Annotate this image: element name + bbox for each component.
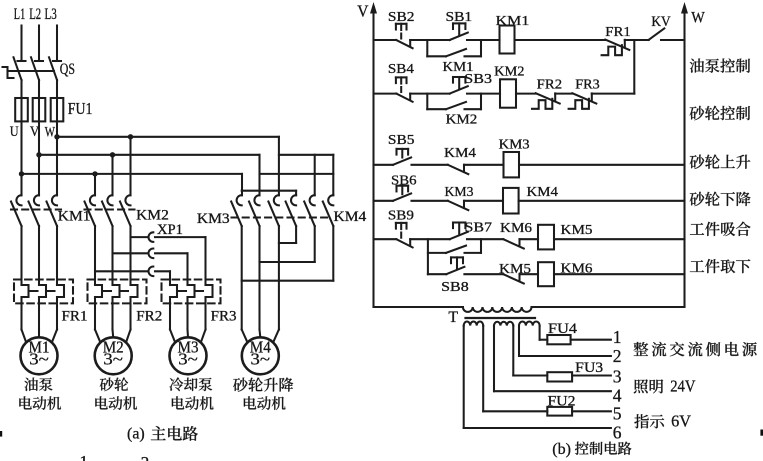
svg-text:SB4: SB4	[388, 61, 414, 76]
pushbutton SB2 (NC)	[396, 24, 413, 48]
label lighting 24V	[634, 377, 696, 396]
svg-text:FU4: FU4	[548, 321, 578, 337]
wire rung3 c	[519, 164, 685, 166]
relay contact KV	[649, 28, 665, 39]
svg-text:FU3: FU3	[575, 360, 603, 376]
aux contact KM5 (self-hold, parallel SB7)	[428, 239, 481, 253]
transformer T core	[466, 317, 536, 319]
label SB4	[388, 61, 414, 76]
label FR3 contact	[575, 78, 599, 93]
svg-text:KM4: KM4	[444, 146, 476, 161]
label terminal 4	[613, 386, 622, 406]
contactor KM1 main contacts	[11, 195, 61, 226]
fuse FU1 (3 fuses)	[15, 98, 63, 121]
label KM1 main	[58, 209, 91, 225]
label KM2 coil	[494, 65, 524, 80]
aux contact KM2 (self-hold, parallel SB3)	[427, 94, 481, 110]
label KM4 main	[334, 209, 368, 225]
label QS	[60, 61, 75, 78]
svg-text:6V: 6V	[671, 412, 692, 431]
caption (b)	[552, 441, 631, 458]
label FR2 contact	[537, 78, 562, 93]
node L2 supply line	[38, 26, 40, 61]
svg-text:XP1: XP1	[157, 222, 183, 238]
wire rung6 a	[464, 273, 503, 275]
wire secondary out 3	[513, 326, 611, 376]
wire secondary out 5	[483, 326, 611, 412]
label M3 name	[169, 377, 213, 409]
label FR1 contact	[605, 25, 631, 40]
wire secondary out 1	[540, 326, 611, 340]
switch QS (3-pole knife switch)	[3, 57, 62, 98]
label KM3 main	[197, 211, 230, 227]
coil KM6	[538, 262, 554, 286]
transformer T primary	[463, 307, 532, 312]
wire rung3 b	[464, 164, 504, 166]
label func wheel up	[690, 155, 751, 169]
svg-text:W: W	[691, 10, 705, 27]
wire rung1 c	[515, 39, 606, 41]
wire rung3 a	[412, 164, 448, 166]
svg-text:SB7: SB7	[465, 220, 493, 235]
svg-text:FR1: FR1	[605, 25, 631, 40]
svg-text:24V: 24V	[670, 377, 696, 396]
label SB6	[391, 173, 417, 188]
label SB9	[388, 208, 414, 223]
svg-text:1: 1	[80, 452, 89, 461]
label KM2 aux	[446, 113, 478, 128]
wire rung6 b	[520, 273, 539, 275]
label func wheel down	[690, 192, 751, 206]
linkage dashes KM3 KM4	[232, 216, 331, 218]
svg-text:SB9: SB9	[388, 208, 414, 223]
label func wheel control	[690, 106, 750, 120]
label KM6 nc5	[500, 221, 532, 236]
pushbutton SB4 (NC)	[396, 77, 413, 101]
label indicator 6V	[634, 412, 691, 431]
wire rung6 c	[554, 273, 685, 275]
svg-text:KM3: KM3	[445, 185, 474, 200]
svg-text:FR2: FR2	[537, 78, 562, 93]
label M1	[29, 337, 50, 368]
wire rung4 c	[519, 200, 685, 202]
node W rail (right)	[681, 2, 688, 307]
label M2	[103, 337, 124, 368]
label func work release	[690, 259, 750, 273]
svg-text:QS: QS	[60, 61, 75, 78]
svg-text:3~: 3~	[251, 349, 271, 368]
svg-text:6: 6	[613, 423, 622, 443]
transformer T secondary w2	[494, 322, 513, 326]
label M3	[178, 337, 199, 368]
crop artifact right	[760, 430, 763, 436]
label KV	[651, 14, 671, 30]
label SB8	[441, 279, 469, 294]
label M4	[250, 337, 271, 368]
wire rung4 a	[412, 200, 448, 202]
wire rung1 d	[625, 39, 649, 41]
wire rung2 a	[410, 93, 450, 95]
pushbutton SB9 (NC)	[396, 223, 413, 248]
thermal relay FR2 heaters	[88, 280, 147, 330]
node L1 supply line	[20, 26, 22, 61]
wire rung2 c	[516, 93, 536, 95]
svg-text:(a): (a)	[127, 426, 145, 443]
svg-text:3: 3	[613, 367, 622, 387]
svg-text:FR3: FR3	[575, 78, 599, 93]
svg-text:SB8: SB8	[441, 279, 469, 294]
svg-text:2: 2	[613, 346, 622, 366]
wire KM2 outputs	[95, 226, 131, 285]
label terminal 3	[613, 367, 622, 387]
wire rung2 e	[592, 93, 635, 95]
coil KM4	[503, 188, 519, 214]
fuse FU2	[547, 407, 572, 416]
transformer T secondary w1	[464, 322, 484, 326]
wire rung4 left	[374, 200, 394, 202]
interlock contact KM4 (NC)	[448, 165, 469, 174]
wire rung6 riser	[427, 239, 429, 274]
svg-text:L3: L3	[45, 6, 57, 23]
wire bottom rail	[374, 306, 685, 308]
svg-text:KM6: KM6	[500, 221, 532, 236]
label FU1	[68, 99, 93, 118]
label SB1	[446, 9, 473, 24]
pushbutton SB7 (NO)	[450, 223, 468, 240]
label KM4 coil	[527, 185, 559, 200]
svg-text:KM3: KM3	[197, 211, 230, 227]
svg-text:SB6: SB6	[391, 173, 417, 188]
wire rung1 b	[467, 39, 500, 41]
label FR3	[211, 309, 237, 325]
label M1 name	[19, 378, 61, 410]
label rectifier supply	[634, 342, 757, 356]
label XP1	[157, 222, 183, 238]
motor M4	[242, 330, 279, 375]
wire secondary out 4	[494, 326, 611, 392]
svg-text:SB3: SB3	[464, 71, 492, 86]
label KM4 nc3	[444, 146, 476, 161]
svg-text:2: 2	[141, 453, 150, 461]
coil KM1	[500, 26, 515, 54]
label FR1	[62, 309, 88, 325]
svg-text:KM2: KM2	[494, 65, 524, 80]
wire rung5 a	[410, 238, 450, 240]
connector XP1	[95, 232, 206, 285]
svg-text:3~: 3~	[103, 349, 123, 368]
pushbutton SB8 (NO)	[446, 257, 464, 274]
coil KM5	[538, 225, 554, 250]
thermal contact FR3 (NC)	[569, 93, 597, 109]
svg-text:KM1: KM1	[58, 209, 91, 225]
svg-text:SB1: SB1	[446, 9, 473, 24]
wire rung2 left	[374, 93, 397, 95]
svg-text:V: V	[357, 2, 369, 21]
wire rung2 d	[555, 93, 572, 95]
svg-text:KM1: KM1	[496, 14, 530, 29]
label terminal 5	[613, 404, 622, 424]
svg-text:L1: L1	[14, 6, 25, 23]
label func oil pump control	[690, 58, 750, 72]
label KM3 coil	[499, 138, 530, 153]
thermal contact FR2 (NC)	[532, 93, 560, 109]
wire feeders to KM3/KM4	[242, 137, 334, 196]
label KM2 main	[136, 208, 169, 224]
label terminal 1	[613, 327, 622, 347]
svg-text:W: W	[45, 125, 56, 141]
coil KM3	[504, 152, 520, 177]
svg-text:KV: KV	[651, 14, 671, 30]
svg-text:FU2: FU2	[548, 394, 576, 410]
wire rung1 a	[410, 39, 450, 41]
partial terminal 2	[141, 453, 150, 461]
svg-text:KM4: KM4	[334, 209, 368, 225]
label M4 name	[233, 378, 293, 410]
label SB5	[388, 132, 415, 147]
coil KM2	[500, 79, 516, 107]
wire rung3 left	[374, 164, 394, 166]
contactor KM4 main contacts	[286, 195, 334, 226]
aux contact KM1 (self-hold, parallel SB1)	[427, 40, 481, 56]
label KM3 nc4	[445, 185, 474, 200]
label KM6 coil	[561, 262, 593, 277]
label SB7	[465, 220, 493, 235]
svg-text:KM4: KM4	[527, 185, 559, 200]
label terminal 2	[613, 346, 622, 366]
label FU2	[548, 394, 576, 410]
svg-text:SB5: SB5	[388, 132, 415, 147]
interlock contact KM5 (NC)	[503, 274, 524, 283]
pushbutton SB3 (NO)	[450, 77, 468, 94]
wire U V W phase drops	[22, 98, 58, 195]
wire rung1 left	[374, 39, 397, 41]
svg-text:L2: L2	[29, 6, 41, 23]
svg-text:FR1: FR1	[62, 309, 88, 325]
label KM1 coil	[496, 14, 530, 29]
wire rung6 left	[428, 273, 446, 275]
fuse FU3	[547, 372, 572, 381]
svg-text:T: T	[448, 309, 458, 326]
svg-text:KM3: KM3	[499, 138, 530, 153]
contactor KM3 main contacts	[231, 195, 279, 226]
svg-text:FR3: FR3	[211, 309, 237, 325]
wire secondary out 2	[519, 326, 611, 356]
label L3	[45, 6, 57, 23]
caption (a)	[127, 426, 198, 443]
thermal relay FR3 heaters	[162, 280, 221, 330]
label terminal 6	[613, 423, 622, 443]
motor M1	[21, 330, 58, 375]
label func work hold	[690, 222, 751, 236]
svg-text:KM6: KM6	[561, 262, 593, 277]
svg-text:5: 5	[613, 404, 622, 424]
label FU4	[548, 321, 578, 337]
wire rung2 b	[467, 93, 500, 95]
svg-text:U: U	[10, 124, 19, 140]
wire rung1 e	[661, 39, 685, 41]
wire rung2 riser	[633, 40, 635, 94]
label SB2	[388, 9, 415, 24]
label KM5 nc6	[499, 262, 531, 277]
pushbutton SB6 (NO)	[393, 186, 411, 201]
svg-text:SB2: SB2	[388, 9, 415, 24]
svg-text:3~: 3~	[178, 349, 198, 368]
contactor KM2 main contacts	[85, 195, 135, 226]
svg-text:FR2: FR2	[136, 309, 162, 325]
label L2	[29, 6, 41, 23]
label M2 name	[95, 377, 137, 409]
motor M2	[95, 330, 132, 375]
wire drops to KM2	[95, 137, 131, 196]
motor M3	[170, 330, 207, 375]
label FR2	[136, 309, 162, 325]
wire rung5 c	[520, 238, 539, 240]
svg-text:3~: 3~	[29, 349, 49, 368]
label T	[448, 309, 458, 326]
label W rail	[691, 10, 705, 27]
svg-text:1: 1	[613, 327, 622, 347]
wire secondary out 6	[464, 326, 611, 428]
label U	[10, 124, 19, 140]
label V rail	[357, 2, 369, 21]
svg-text:KM5: KM5	[561, 223, 593, 238]
pushbutton SB5 (NO)	[393, 149, 411, 165]
interlock contact KM3 (NC)	[448, 201, 469, 210]
fuse FU4	[547, 335, 570, 344]
thermal relay FR1 heaters	[14, 280, 73, 330]
wire bus U (bottom)	[19, 171, 242, 176]
transformer T secondary w3	[519, 321, 540, 325]
partial terminal 1	[80, 452, 89, 461]
label L1	[14, 6, 25, 23]
svg-text:KM5: KM5	[499, 262, 531, 277]
wire rung4 b	[464, 200, 503, 202]
svg-text:4: 4	[613, 386, 622, 406]
label SB3	[464, 71, 492, 86]
node L3 supply line	[56, 26, 58, 61]
wire bus V (middle)	[36, 152, 259, 157]
svg-text:KM2: KM2	[446, 113, 478, 128]
node V rail (left)	[370, 2, 377, 307]
wire rung5 d	[554, 238, 685, 240]
thermal contact FR1 (NC)	[602, 40, 630, 56]
wire rung5 left	[374, 238, 397, 240]
interlock contact KM6 (NC)	[503, 239, 524, 248]
label V	[30, 124, 40, 140]
wire KM1 outputs	[22, 226, 58, 285]
wire KM3/KM4 output pairs	[242, 226, 334, 330]
svg-text:(b): (b)	[552, 441, 571, 458]
label KM5 coil	[561, 223, 593, 238]
label W	[45, 125, 56, 141]
crop artifact left	[0, 431, 2, 437]
svg-text:FU1: FU1	[68, 99, 93, 118]
svg-text:V: V	[30, 124, 40, 140]
label KM1 aux	[443, 60, 474, 75]
wire rung5 b	[467, 238, 503, 240]
wire bus W (top)	[54, 134, 279, 139]
label FU3	[575, 360, 603, 376]
pushbutton SB1 (NO)	[450, 23, 468, 40]
